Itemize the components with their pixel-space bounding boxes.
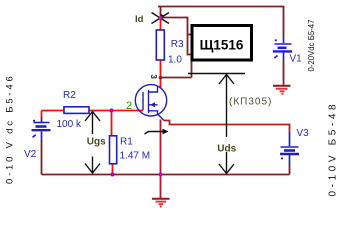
svg-text:V1: V1 [290, 54, 303, 65]
svg-text:R2: R2 [63, 90, 76, 101]
svg-text:100 k: 100 k [57, 119, 82, 130]
svg-text:Щ1516: Щ1516 [200, 38, 244, 53]
svg-text:R3: R3 [171, 39, 184, 50]
svg-text:Uds: Uds [217, 144, 236, 155]
svg-text:R1: R1 [120, 137, 133, 148]
svg-text:1.47 M: 1.47 M [120, 151, 151, 162]
svg-text:1.0: 1.0 [168, 54, 182, 65]
svg-text:0-10 V dc Б5-46: 0-10 V dc Б5-46 [5, 73, 16, 184]
svg-text:0-20Vdc Б5-47: 0-20Vdc Б5-47 [307, 20, 316, 72]
svg-text:2: 2 [126, 100, 132, 112]
svg-text:Id: Id [135, 14, 144, 25]
svg-text:0-10V Б5-48: 0-10V Б5-48 [328, 101, 339, 197]
svg-text:(КП305): (КП305) [229, 97, 272, 108]
svg-text:3: 3 [149, 74, 159, 79]
svg-text:V2: V2 [24, 149, 37, 160]
svg-text:Ugs: Ugs [87, 137, 106, 148]
svg-text:V3: V3 [297, 128, 310, 139]
